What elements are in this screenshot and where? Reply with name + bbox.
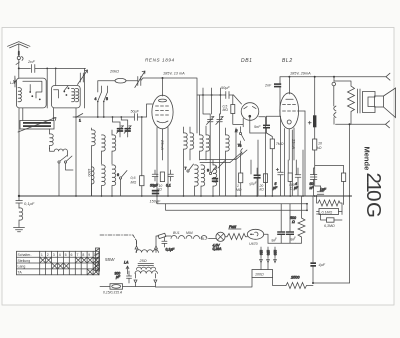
svg-text:Schalter-: Schalter- bbox=[18, 253, 33, 257]
wire cap to variable cap bbox=[35, 67, 86, 69]
svg-text:M94: M94 bbox=[186, 231, 193, 235]
svg-text:1: 1 bbox=[41, 253, 43, 257]
iron core tuning coil bbox=[18, 118, 56, 133]
wire switch to bus bbox=[59, 163, 73, 196]
svg-text:220: 220 bbox=[273, 250, 277, 256]
svg-text:2nF: 2nF bbox=[264, 84, 272, 88]
ground bbox=[14, 224, 25, 232]
svg-text:55W: 55W bbox=[105, 257, 115, 262]
svg-text:9: 9 bbox=[207, 169, 209, 173]
wire left column down bbox=[18, 108, 20, 196]
transformer 25 bbox=[134, 259, 157, 287]
IF coil pair top d bbox=[206, 126, 210, 160]
capacitor 50uF det bbox=[249, 168, 261, 196]
wire stubs into boxes bbox=[47, 68, 56, 108]
switch contact 5 bbox=[103, 92, 108, 102]
cathode cluster resistor bbox=[158, 172, 165, 192]
wire anode rail left bbox=[143, 78, 197, 133]
svg-text:RENS 1894: RENS 1894 bbox=[145, 58, 175, 63]
svg-text:1: 1 bbox=[79, 119, 81, 123]
node j1 bbox=[46, 68, 48, 70]
barretter U670 bbox=[247, 229, 263, 246]
IF coil pair top c bbox=[200, 95, 204, 160]
wire R switch up bbox=[240, 127, 242, 133]
svg-text:50µF: 50µF bbox=[221, 86, 230, 90]
wire grid BL2 bbox=[250, 116, 281, 139]
wire into DB1 bbox=[234, 95, 242, 104]
wire anode to tube1 bbox=[162, 78, 164, 96]
IF coil lower b bbox=[201, 165, 205, 196]
svg-text:2: 2 bbox=[47, 253, 49, 257]
svg-text:185V, 13 mA: 185V, 13 mA bbox=[163, 72, 185, 76]
capacitor 300pF bbox=[115, 271, 132, 283]
coil L5 left ground bbox=[19, 208, 23, 224]
node speaker bottom bbox=[349, 123, 351, 125]
svg-text:6,3MΩ: 6,3MΩ bbox=[324, 224, 335, 228]
IF coil lower a bbox=[195, 165, 199, 196]
rail end fork bbox=[386, 73, 390, 80]
svg-text:7: 7 bbox=[77, 253, 79, 257]
svg-text:4: 4 bbox=[59, 253, 61, 257]
coil box2 outline bbox=[52, 86, 81, 108]
wire antenna to cap bbox=[19, 67, 31, 69]
svg-text:150: 150 bbox=[266, 250, 270, 256]
svg-text:5nF: 5nF bbox=[254, 125, 261, 129]
coil L4 bbox=[92, 128, 96, 196]
coil L2 bbox=[50, 129, 54, 149]
svg-text:Feld: Feld bbox=[229, 225, 237, 229]
resistor 500 vertical bbox=[290, 196, 305, 243]
wire rail to tube BL2 bbox=[286, 77, 293, 100]
svg-text:5: 5 bbox=[106, 97, 108, 101]
capacitor 0.1uF left bbox=[16, 196, 35, 208]
oscillator coil B bbox=[112, 130, 116, 164]
bottom fork bbox=[386, 121, 390, 128]
tube1 pin wires bbox=[157, 128, 168, 197]
svg-text:0,1MΩ: 0,1MΩ bbox=[322, 210, 333, 214]
fuse 0.15A bbox=[103, 284, 123, 295]
svg-text:3: 3 bbox=[53, 253, 55, 257]
capacitor 50nF double bbox=[310, 168, 317, 196]
resistor 10k bbox=[313, 139, 344, 205]
capacitor 4uF dark bbox=[310, 262, 325, 267]
tube BL2 pin wires bbox=[285, 111, 306, 196]
capacitor 5uF bbox=[273, 116, 283, 196]
jack circle bbox=[332, 82, 336, 86]
cathode cluster cap2 bbox=[166, 170, 173, 188]
svg-text:6: 6 bbox=[71, 253, 73, 257]
mains wire bottom bbox=[100, 286, 110, 288]
svg-text:kΩ: kΩ bbox=[317, 146, 322, 150]
wire fuse right bbox=[123, 286, 156, 288]
node bus left bbox=[18, 195, 20, 197]
variable capacitor antenna trimmer bbox=[78, 70, 88, 85]
wire varcap right edge down bbox=[84, 68, 86, 108]
svg-text:6: 6 bbox=[117, 173, 119, 177]
node y95 b bbox=[211, 94, 213, 96]
svg-text:MΩ: MΩ bbox=[131, 181, 137, 185]
svg-text:185V, 29mA: 185V, 29mA bbox=[290, 72, 311, 76]
choke humps bbox=[171, 236, 217, 239]
svg-text:25Ω: 25Ω bbox=[139, 259, 147, 263]
trimmer dark cap bbox=[212, 178, 218, 182]
svg-text:R: R bbox=[235, 129, 238, 133]
svg-text:Lang: Lang bbox=[18, 265, 26, 269]
antenna bbox=[8, 42, 31, 56]
svg-text:2500: 2500 bbox=[290, 276, 300, 280]
wire selector right to 2500 bbox=[273, 278, 287, 286]
cathode cluster cap bbox=[150, 170, 159, 188]
wire avc drop bbox=[141, 116, 143, 118]
wire trimmer tops to y95 bbox=[203, 95, 220, 114]
resistor 400 bbox=[288, 173, 295, 196]
svg-text:2nF: 2nF bbox=[27, 59, 35, 64]
svg-text:DB1: DB1 bbox=[241, 58, 253, 64]
coil box1 outline bbox=[16, 78, 46, 108]
plus mark cathode bbox=[308, 121, 311, 124]
resistor 20k det bbox=[259, 174, 268, 196]
svg-text:LA: LA bbox=[124, 261, 129, 265]
svg-text:210 G: 210 G bbox=[362, 173, 385, 217]
selector box 100 bbox=[155, 263, 272, 288]
capacitor 2nF bbox=[27, 59, 35, 73]
switch contact 6 bbox=[117, 171, 127, 197]
tube BL2 bbox=[280, 93, 305, 129]
node j2 bbox=[55, 68, 57, 70]
svg-text:MΩ: MΩ bbox=[223, 108, 229, 112]
switch contact 7 bbox=[185, 164, 194, 172]
svg-text:BL2: BL2 bbox=[282, 58, 293, 64]
transformer secondary bbox=[363, 92, 376, 113]
lamp BL2 bbox=[213, 232, 226, 251]
wire jack down bbox=[333, 118, 335, 125]
svg-text:9: 9 bbox=[88, 253, 90, 257]
heater bus b bbox=[166, 204, 308, 211]
svg-text:0,1µF: 0,1µF bbox=[24, 201, 35, 206]
capacitor 8uF a bbox=[271, 204, 285, 243]
svg-text:110: 110 bbox=[259, 250, 263, 255]
svg-text:20kΩ: 20kΩ bbox=[109, 70, 119, 74]
node rail cathode cap bbox=[314, 76, 316, 78]
speaker branch node bbox=[333, 76, 335, 78]
resistor 0.6M bbox=[131, 117, 145, 196]
resistor field zigzag bbox=[334, 81, 355, 124]
capacitor 8uF b bbox=[286, 204, 298, 243]
wire speaker branch bbox=[333, 77, 335, 81]
jack brackets bbox=[334, 86, 336, 118]
resistor 6.3M small bbox=[317, 214, 343, 228]
svg-text:BU1: BU1 bbox=[173, 231, 180, 235]
capacitor electrolytic cathode bbox=[313, 77, 316, 139]
svg-text:25mA: 25mA bbox=[160, 139, 164, 150]
node 2500 to 313 bbox=[312, 282, 314, 284]
svg-text:Stellung: Stellung bbox=[18, 259, 31, 263]
node rail tube2 bbox=[288, 76, 290, 78]
coil L3 horizontal bbox=[50, 148, 68, 156]
wire grid cap into tube bbox=[141, 78, 153, 117]
capacitor 2nF grid coupling bbox=[264, 77, 281, 117]
wire 20k left column bbox=[97, 81, 99, 92]
switch S2 contacts bbox=[58, 156, 72, 164]
oscillator coil C lower bbox=[102, 165, 106, 196]
AVC line bbox=[73, 116, 147, 118]
switch in box2 bbox=[54, 86, 70, 98]
svg-text:5: 5 bbox=[65, 253, 67, 257]
node y95 a bbox=[202, 94, 204, 96]
antenna plug bbox=[16, 52, 23, 69]
resistor 2500 zigzag bbox=[286, 276, 313, 289]
node AVC d bbox=[120, 116, 122, 118]
wire 4uF column bbox=[313, 196, 350, 283]
coil L-ant in box1 bbox=[18, 88, 21, 102]
link wires y159-162 bbox=[200, 160, 236, 163]
svg-text:8: 8 bbox=[82, 253, 84, 257]
resistor Feld zigzag bbox=[227, 225, 247, 240]
svg-text:Ω: Ω bbox=[292, 220, 295, 224]
svg-text:BL2: BL2 bbox=[201, 237, 207, 241]
svg-text:Mende: Mende bbox=[363, 147, 372, 171]
svg-text:50µF: 50µF bbox=[131, 110, 140, 114]
svg-text:150µF: 150µF bbox=[150, 200, 162, 204]
mains entry hatched bbox=[96, 248, 100, 271]
svg-text:TA: TA bbox=[18, 271, 23, 275]
resistor 20k oval bbox=[98, 70, 138, 83]
svg-text:0,1: 0,1 bbox=[166, 184, 171, 188]
switch table bbox=[17, 251, 100, 274]
svg-text:7MΩ: 7MΩ bbox=[276, 142, 284, 146]
fuse Si diag bbox=[158, 233, 166, 238]
node y95 c bbox=[220, 94, 222, 96]
svg-text:kΩ: kΩ bbox=[158, 188, 163, 192]
wires inside box1 bbox=[23, 81, 42, 100]
node antenna junction bbox=[18, 67, 20, 69]
node AVC a bbox=[97, 116, 99, 118]
svg-text:0,6: 0,6 bbox=[131, 176, 136, 180]
IF coil pair top b bbox=[190, 127, 194, 160]
resistor 0.5M bbox=[223, 95, 244, 124]
tube RENS1894 bbox=[152, 95, 173, 129]
svg-text:4: 4 bbox=[95, 97, 97, 101]
coil L4 lower bbox=[92, 167, 95, 196]
svg-text:U670: U670 bbox=[249, 242, 258, 246]
svg-text:33mA: 33mA bbox=[292, 139, 296, 149]
wire mid column down bbox=[75, 108, 77, 196]
switch contact 9 bbox=[207, 167, 216, 175]
switch contact 1 bbox=[75, 114, 83, 123]
svg-text:7: 7 bbox=[185, 167, 187, 171]
wire y95 detector feed bbox=[197, 94, 234, 96]
voltage taps bbox=[259, 247, 277, 263]
resistor feedback small bbox=[342, 173, 346, 182]
IF coil pair top bbox=[184, 127, 188, 196]
node AVC c bbox=[112, 116, 114, 118]
svg-text:100Ω: 100Ω bbox=[255, 273, 264, 277]
wire antenna down to coil box bbox=[15, 68, 19, 87]
diagonal links bbox=[218, 150, 247, 168]
variable capacitor grid t1 bbox=[135, 71, 145, 88]
svg-text:0,28A: 0,28A bbox=[213, 247, 223, 251]
mains wire top dashdot bbox=[100, 235, 137, 244]
svg-text:0,15/0,315 A: 0,15/0,315 A bbox=[103, 291, 123, 295]
wire DB1 right bbox=[243, 117, 265, 196]
ground bus bbox=[19, 195, 352, 197]
coil right x225 bbox=[226, 128, 230, 196]
grid network zigzag top bbox=[317, 196, 343, 215]
transformer top winding bbox=[135, 236, 158, 253]
oscillator coil D lower bbox=[112, 165, 116, 196]
transformer core bbox=[358, 89, 360, 113]
resistor 1M bbox=[236, 173, 243, 196]
wire speaker bottom bbox=[336, 123, 386, 125]
capacitor 4uF det bbox=[294, 168, 301, 196]
gang trimmer c bbox=[207, 114, 215, 172]
svg-text:0,1µF: 0,1µF bbox=[166, 248, 176, 252]
capacitor 50uF series bbox=[221, 86, 230, 99]
node AVC b bbox=[103, 116, 105, 118]
resistor 0.1M box bbox=[317, 209, 343, 215]
capacitor 50uF series bbox=[131, 110, 140, 121]
svg-text:kΩ: kΩ bbox=[260, 187, 265, 191]
speaker bbox=[375, 88, 396, 118]
oscillator coil A bbox=[102, 135, 106, 164]
wire si to chokes bbox=[166, 235, 172, 237]
IF coil lower c bbox=[213, 160, 217, 196]
trimmer cap pair osc bbox=[113, 117, 132, 137]
wire right column down bbox=[349, 124, 351, 283]
switch Ta bbox=[238, 141, 243, 154]
label LA arrow bbox=[124, 261, 129, 275]
svg-text:1800: 1800 bbox=[87, 169, 91, 177]
gang trimmer d bbox=[216, 114, 224, 196]
wire box stubs down bbox=[23, 108, 54, 121]
wire filter caps bottom bbox=[268, 242, 295, 244]
resistor 7M bbox=[270, 139, 284, 196]
tube DB1 socket circle bbox=[241, 103, 259, 133]
switch contact 4 bbox=[95, 92, 102, 102]
switch R bbox=[235, 129, 245, 141]
coil pair in box2 bbox=[72, 88, 79, 101]
capacitor 5nF bbox=[254, 116, 270, 133]
wire u670 right bbox=[264, 234, 268, 243]
comb verticals detector bbox=[236, 128, 303, 196]
svg-text:1µF: 1µF bbox=[320, 188, 327, 192]
wire lamp to feld bbox=[225, 236, 227, 238]
bus junction dots bbox=[75, 195, 350, 197]
capacitor 1uF bbox=[317, 186, 327, 194]
stub wires up from y95 bbox=[203, 88, 220, 95]
svg-text:4µF: 4µF bbox=[319, 263, 326, 267]
node anode t1 bbox=[162, 77, 164, 79]
capacitor 0.1uF heater bbox=[162, 238, 175, 252]
wire switches to AVC line bbox=[98, 86, 108, 117]
capacitor 150uF bbox=[150, 190, 162, 204]
anode rail right bbox=[280, 76, 386, 78]
heater bus a bbox=[157, 196, 307, 204]
